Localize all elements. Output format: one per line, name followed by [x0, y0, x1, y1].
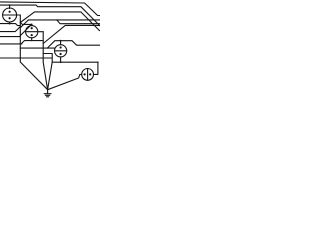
wire stub from C down to y=23.7 flat [57, 20, 100, 24]
ground [44, 90, 51, 97]
wire Q2 bottom branch left to feeder [21, 41, 32, 44]
wire left feeder y=31.6 with jog up to rail [0, 27, 20, 32]
wire from left rail via y=11.9 flat to right edge [20, 12, 100, 31]
wire diagonal Q from rail to Q2 top node [20, 24, 31, 35]
wire ground rail y=58 [0, 57, 52, 59]
junction dot Q3 top [60, 40, 62, 42]
transistor Q2 [26, 24, 38, 41]
wire left rail lower stub and diagonal to ground node [20, 58, 47, 90]
wire diagonal P from left rail to C [20, 20, 28, 28]
wire Q3 top lead [60, 41, 62, 45]
transistor Q4 (horizontal) [82, 69, 94, 81]
wire rail B [0, 5, 100, 26]
wire steep line from rail joint to ground node [48, 62, 53, 89]
wire mid vertical V43 to ground node [43, 32, 47, 90]
wire rail C [28, 19, 100, 21]
wire W3 diagonal from V43 to right edge [43, 25, 100, 43]
wire left feeder y=36.6 [0, 36, 20, 38]
transistor Q1 [3, 4, 21, 24]
wire Q4 left lead to ground node [48, 74, 82, 89]
wire Q3 bottom lead [60, 57, 62, 62]
wire horizontal y=48.1 from left rail [20, 47, 54, 49]
wire D3b diagonal to Q3 top rail [47, 41, 100, 48]
wire Q4 right lead riser [94, 62, 98, 74]
wire jog down to y=62.2 rail [43, 54, 98, 63]
wire top rail A [0, 2, 100, 16]
wire left vertical rail [19, 15, 21, 58]
wire Q2 base route [38, 31, 43, 33]
wire Q2 top feeder from rail [20, 23, 31, 25]
junction dot Q3 bottom [60, 61, 62, 63]
transistor Q3 [55, 45, 67, 57]
wire left feeder y=43.9 [0, 43, 22, 45]
wire Q2 bottom branch right to mid vertical [32, 40, 44, 42]
wire left feeder y=23.6 to Q1 bottom [0, 24, 20, 26]
